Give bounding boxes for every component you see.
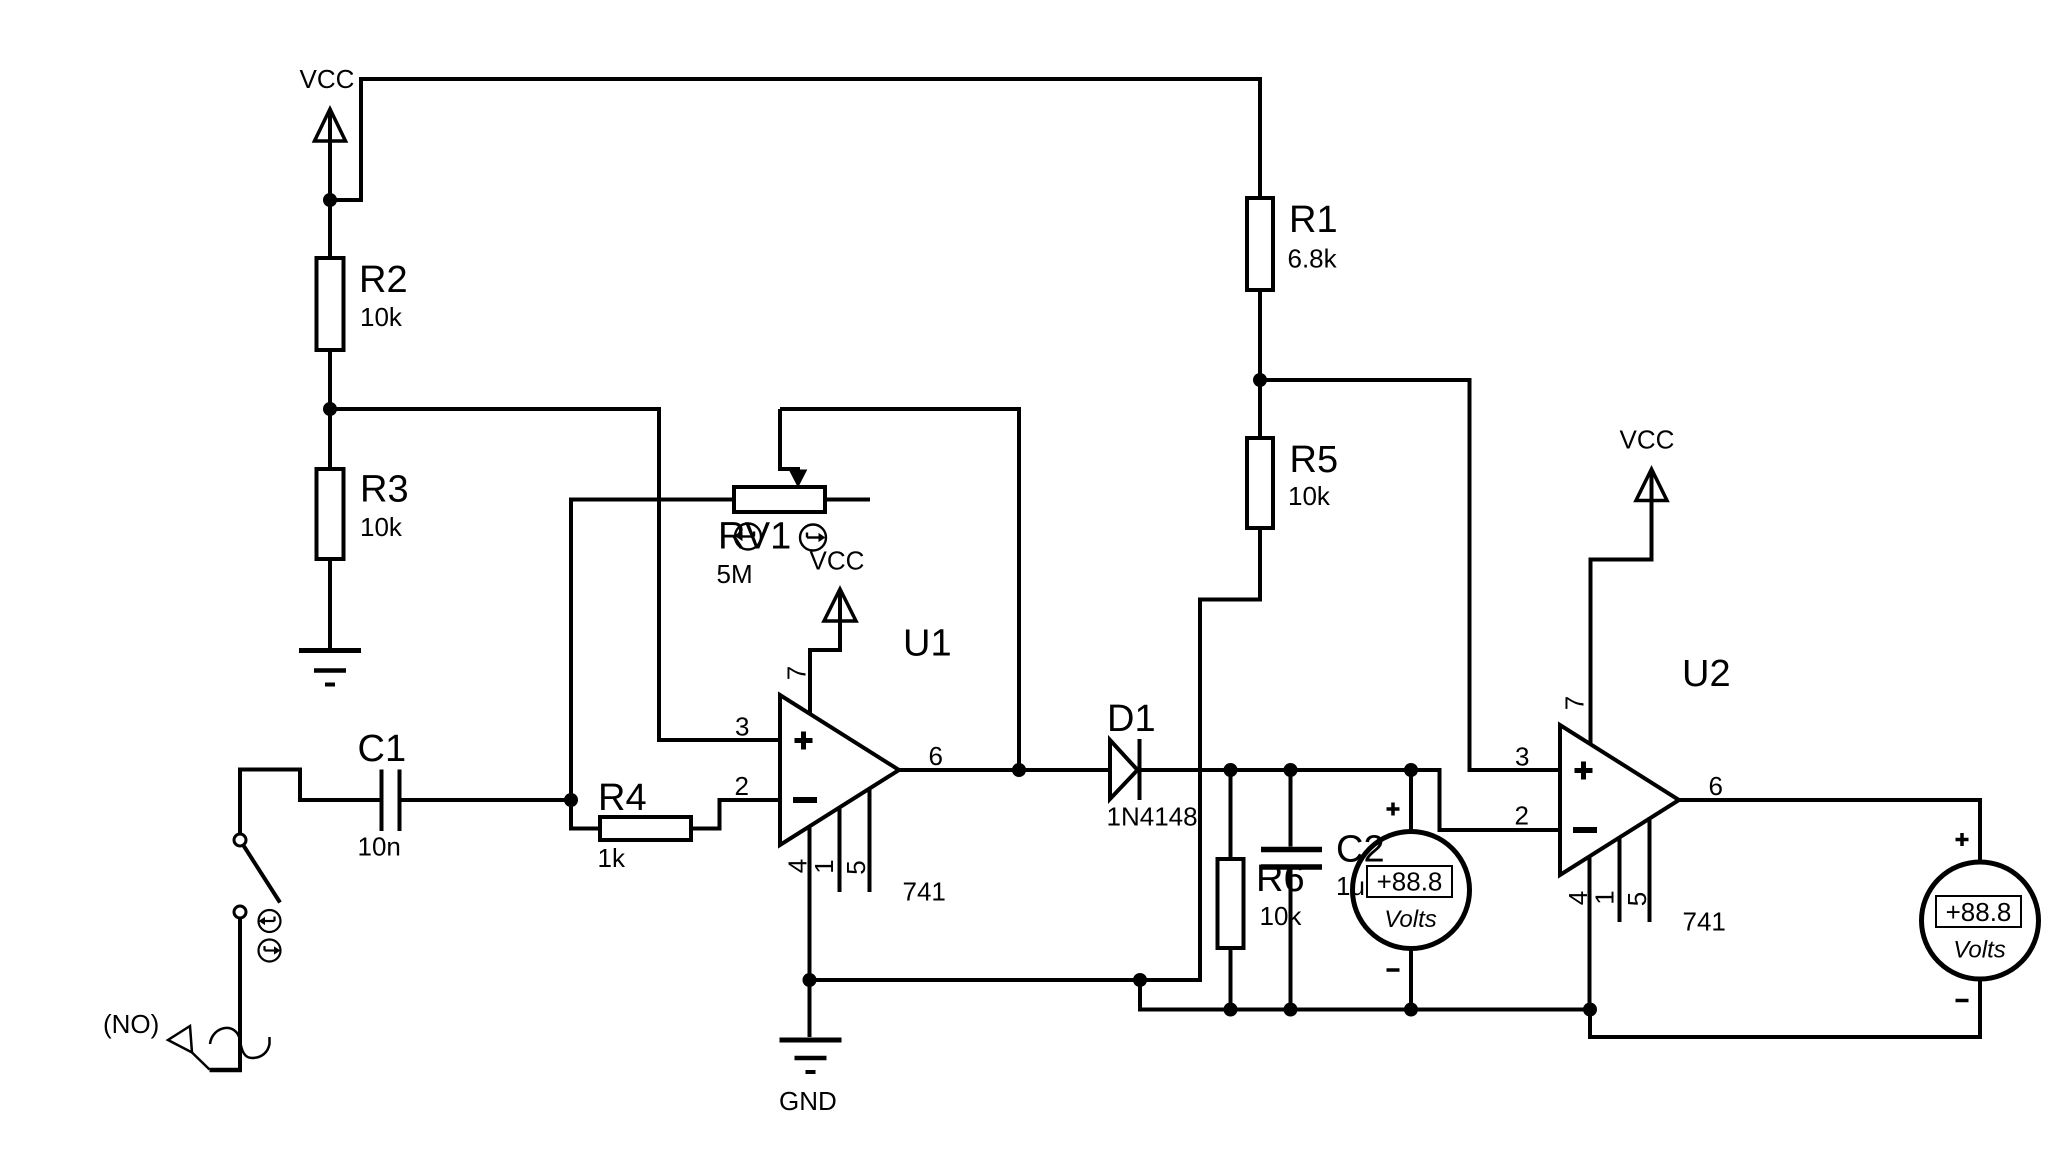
svg-text:7: 7 — [1560, 696, 1590, 710]
svg-text:3: 3 — [1515, 742, 1529, 772]
U1 plus input marking — [795, 732, 813, 750]
svg-text:2: 2 — [1515, 801, 1529, 831]
svg-text:VCC: VCC — [1620, 425, 1675, 455]
node junction C1/R4/RV1 — [564, 793, 578, 807]
wire D1 cathode to U2 pin2 — [1141, 770, 1560, 830]
svg-text:10k: 10k — [1260, 901, 1303, 931]
svg-text:1N4148: 1N4148 — [1107, 802, 1198, 832]
svg-text:R4: R4 — [598, 777, 647, 819]
RV1 toggle button increase — [800, 525, 826, 551]
svg-text:R5: R5 — [1290, 439, 1339, 481]
node junction R6 top — [1224, 763, 1238, 777]
node junction R6 bottom — [1224, 1003, 1238, 1017]
ground symbol GND under U1 — [780, 1040, 842, 1072]
pin 4 wire of U2 — [1588, 857, 1592, 1010]
voltmeter2 minus terminal mark — [1956, 999, 1969, 1003]
svg-text:6: 6 — [929, 741, 943, 771]
svg-text:U2: U2 — [1682, 653, 1731, 695]
pin 1 stub of U2 — [1618, 838, 1622, 923]
node junction U1 pin4 / GND — [803, 973, 817, 987]
svg-text:5: 5 — [1622, 892, 1652, 906]
svg-text:741: 741 — [1683, 907, 1726, 937]
wire R2 bottom to junction — [328, 350, 332, 409]
svg-text:U1: U1 — [903, 623, 952, 665]
node junction VCC/R2 — [323, 193, 337, 207]
ground symbol under R3 — [299, 651, 361, 685]
wire VCC dot to R2 top — [328, 200, 332, 258]
svg-text:Volts: Volts — [1384, 906, 1436, 933]
wire U1 output to D1 anode — [899, 768, 1110, 772]
wire voltmeter1 bottom lead — [1409, 949, 1413, 1010]
node junction gnd rail T — [1133, 973, 1147, 987]
svg-text:2: 2 — [735, 771, 749, 801]
svg-text:GND: GND — [779, 1086, 837, 1116]
wire R4 right to U1 pin2 — [691, 800, 780, 829]
node junction U1 output / feedback — [1012, 763, 1026, 777]
voltmeter VM1 — [1353, 832, 1470, 949]
power VCC symbol for U1 — [810, 589, 856, 714]
switch actuator plunger — [168, 1026, 270, 1070]
switch toggle button down-arrow — [259, 940, 281, 962]
wire C1 right plate to R4 node — [401, 798, 571, 802]
svg-text:741: 741 — [903, 877, 946, 907]
wire R1 bottom through node to R5 top — [1258, 290, 1262, 438]
pin 4 wire of U1 — [808, 827, 812, 981]
voltmeter1 minus terminal mark — [1387, 968, 1400, 972]
resistor R4 — [600, 817, 691, 840]
node junction voltmeter1 bottom — [1404, 1003, 1418, 1017]
node junction C2 top — [1284, 763, 1298, 777]
potentiometer RV1 body — [734, 487, 825, 512]
wire VCC top rail to R1 — [330, 79, 1260, 200]
svg-text:10n: 10n — [358, 832, 401, 862]
svg-text:4: 4 — [783, 859, 813, 873]
svg-text:5M: 5M — [717, 559, 753, 589]
svg-text:R3: R3 — [360, 469, 409, 511]
wire RV1 wiper jog — [780, 409, 798, 472]
voltmeter2 plus terminal mark — [1956, 833, 1969, 846]
svg-text:5: 5 — [841, 860, 871, 874]
svg-text:Volts: Volts — [1953, 936, 2005, 963]
wire R2/R3 junction to U1 pin3 — [330, 409, 780, 740]
svg-text:6.8k: 6.8k — [1288, 244, 1338, 274]
wire U2 output to voltmeter2 — [1679, 800, 1980, 862]
svg-text:4: 4 — [1563, 891, 1593, 905]
U2 plus input marking — [1575, 762, 1593, 780]
resistor R5 — [1247, 438, 1273, 528]
node junction U2 pin4 / rail — [1583, 1003, 1597, 1017]
node junction R2/R3 — [323, 402, 337, 416]
pin 5 stub of U2 — [1648, 819, 1652, 923]
wire U1 pin4 junction to ground symbol — [808, 980, 812, 1037]
op-amp U1 triangle — [780, 695, 899, 845]
resistor R1 — [1247, 198, 1273, 290]
U1 minus input marking — [793, 797, 817, 803]
switch SW pushbutton (NO) — [234, 834, 280, 918]
wire switch bottom terminal down — [238, 918, 242, 1068]
svg-text:1: 1 — [809, 859, 839, 873]
U2 minus input marking — [1573, 827, 1597, 833]
svg-text:VCC: VCC — [810, 546, 865, 576]
capacitor C2 — [1261, 770, 1322, 1010]
wire node down into R4 — [571, 800, 600, 829]
ground rail from U1 pin4 — [810, 528, 1261, 980]
switch toggle button up-arrow — [259, 910, 281, 932]
wire junction to R3 top — [328, 409, 332, 469]
svg-text:D1: D1 — [1107, 698, 1156, 740]
wire voltmeter1 top lead — [1409, 770, 1413, 832]
voltmeter VM2 — [1922, 862, 2039, 979]
RV1 toggle button decrease — [735, 524, 761, 550]
wire RV1 wiper feedback to U1 output — [780, 409, 1019, 770]
svg-text:10k: 10k — [1288, 481, 1331, 511]
svg-text:1: 1 — [1590, 890, 1620, 904]
wire divider node to U2 pin3 — [1260, 380, 1560, 770]
resistor R6 — [1218, 770, 1244, 1010]
node junction voltmeter1 top — [1404, 763, 1418, 777]
svg-text:7: 7 — [782, 666, 812, 680]
svg-text:6: 6 — [1709, 771, 1723, 801]
power VCC symbol for U2 — [1591, 469, 1668, 745]
wire RV1 right terminal stub — [825, 498, 870, 502]
wire lower ground rail — [1140, 980, 1590, 1010]
svg-text:1k: 1k — [598, 843, 626, 873]
resistor R3 — [317, 469, 344, 559]
svg-text:R2: R2 — [359, 259, 408, 301]
diode D1 — [1110, 739, 1140, 800]
svg-text:C1: C1 — [358, 728, 407, 770]
svg-text:+88.8: +88.8 — [1377, 867, 1443, 897]
wire R3 bottom to ground — [328, 559, 332, 648]
node junction C2 bottom — [1284, 1003, 1298, 1017]
node junction R1/R5 divider — [1253, 373, 1267, 387]
svg-text:(NO): (NO) — [103, 1009, 159, 1039]
capacitor C1 — [382, 770, 400, 832]
svg-text:10k: 10k — [360, 512, 403, 542]
svg-text:VCC: VCC — [300, 64, 355, 94]
resistor R2 — [317, 258, 344, 350]
svg-text:+88.8: +88.8 — [1946, 897, 2012, 927]
RV1 wiper arrowhead — [790, 470, 807, 487]
voltmeter1 plus terminal mark — [1387, 803, 1400, 816]
wire switch top to C1 left plate — [240, 770, 380, 835]
svg-text:R1: R1 — [1289, 199, 1338, 241]
wire voltmeter2 bottom to ground rail — [1590, 979, 1980, 1037]
svg-text:10k: 10k — [360, 302, 403, 332]
power VCC symbol top-left — [315, 109, 346, 200]
pin 1 stub of U1 — [838, 808, 842, 893]
op-amp U2 triangle — [1560, 725, 1679, 875]
pin 5 stub of U1 — [868, 789, 872, 893]
svg-text:3: 3 — [735, 712, 749, 742]
wire node up to RV1 left terminal — [571, 500, 734, 801]
